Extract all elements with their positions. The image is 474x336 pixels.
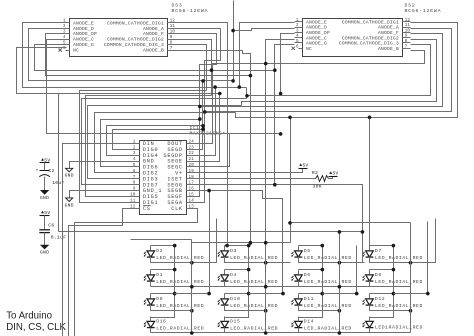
svg-text:ANODE_DP: ANODE_DP — [306, 30, 330, 36]
LED D10 radial red — [218, 296, 279, 309]
wire — [70, 162, 132, 169]
svg-text:D2: D2 — [156, 248, 163, 254]
+5V at IC1 V+ pin — [299, 163, 309, 169]
wire DS3 pin9 cathode DIG2 — [176, 40, 212, 96]
wire anode stub — [224, 246, 226, 251]
svg-text:D5: D5 — [304, 248, 311, 254]
junction — [207, 189, 211, 193]
svg-text:8: 8 — [170, 42, 173, 46]
junction — [190, 261, 194, 265]
svg-text:D7: D7 — [375, 248, 382, 254]
wire DS3 pin1 ANODE_E — [23, 23, 247, 88]
wire V+ to +5V — [195, 169, 303, 173]
junction — [190, 285, 194, 289]
wire cathode stub — [369, 281, 371, 287]
svg-text:ANODE_G: ANODE_G — [306, 41, 327, 47]
capacitor C6 0.1uF — [39, 222, 66, 240]
junction — [264, 285, 268, 289]
junction — [338, 285, 342, 289]
wire cathode jog row3 — [151, 305, 192, 311]
wire DS3 pin5 ANODE_G — [35, 45, 275, 71]
wire DS3 pin7 ANODE_B — [176, 51, 251, 243]
junction — [238, 85, 242, 89]
svg-text:20: 20 — [189, 164, 195, 168]
junction — [201, 124, 205, 128]
svg-text:12: 12 — [405, 19, 411, 23]
wire secondary rail — [209, 191, 211, 294]
wire into IC1 left pin — [113, 130, 203, 150]
junction — [249, 241, 253, 245]
svg-text:C2: C2 — [48, 168, 54, 174]
svg-text:ANODE_A: ANODE_A — [143, 26, 164, 32]
svg-text:LED_RADIAL_RED: LED_RADIAL_RED — [156, 279, 204, 285]
wire LED row2 net — [151, 286, 411, 288]
svg-text:3: 3 — [133, 152, 136, 156]
wire LED row4 net — [151, 332, 411, 334]
wire cathode jog row1 — [299, 257, 365, 263]
junction — [247, 292, 251, 296]
wire DS2 pin12 cathode — [236, 23, 458, 118]
wire SEGG row — [195, 185, 363, 263]
wire CS from Arduino — [69, 209, 132, 336]
junction — [321, 292, 325, 296]
LED D1 radial red — [144, 272, 205, 285]
wire anode stub — [224, 294, 226, 299]
wire into IC1 left pin — [88, 106, 242, 179]
svg-text:17: 17 — [189, 182, 195, 186]
svg-text:LED_RADIAL_RED: LED_RADIAL_RED — [230, 303, 278, 309]
junction — [281, 292, 285, 296]
svg-text:D6: D6 — [304, 272, 311, 278]
junction — [190, 309, 194, 313]
wire DS2 pin5 ANODE_G — [275, 45, 295, 185]
wire into IC1 left pin — [107, 126, 203, 156]
svg-text:19: 19 — [189, 170, 195, 174]
svg-text:11: 11 — [170, 25, 176, 29]
wire col2 bus upper — [265, 64, 267, 243]
svg-text:ANODE_D: ANODE_D — [306, 25, 327, 31]
LED D8 radial red — [362, 272, 423, 285]
svg-text:ANODE_F: ANODE_F — [143, 31, 164, 37]
wire anode chain link — [299, 246, 323, 270]
svg-text:D3: D3 — [230, 248, 237, 254]
svg-text:D8: D8 — [375, 272, 382, 278]
svg-text:COMMON_CATHODE_DIG2: COMMON_CATHODE_DIG2 — [107, 37, 164, 43]
wire col4 anode feed — [291, 222, 411, 224]
junction — [231, 29, 235, 33]
svg-text:ANODE_E: ANODE_E — [73, 20, 94, 26]
svg-text:22: 22 — [189, 152, 195, 156]
svg-text:BC56-12EWA: BC56-12EWA — [405, 8, 442, 14]
svg-text:D16: D16 — [156, 319, 166, 325]
svg-text:1: 1 — [63, 20, 66, 24]
svg-text:9: 9 — [170, 36, 173, 40]
svg-text:16: 16 — [189, 188, 195, 192]
svg-text:13: 13 — [189, 205, 195, 209]
junction — [264, 309, 268, 313]
wire DIN from Arduino — [63, 144, 132, 336]
junction — [338, 261, 342, 265]
junction — [247, 244, 251, 248]
wire cathode bus — [410, 223, 412, 333]
junction — [273, 68, 277, 72]
wire cathode jog row1 — [370, 219, 436, 263]
ground at IC1 pin 9 — [65, 198, 74, 208]
wire anode stub — [369, 317, 371, 322]
svg-text:D15: D15 — [230, 319, 240, 325]
wire — [44, 177, 46, 191]
wire col4 anode drop — [369, 118, 371, 246]
wire cathode stub — [369, 328, 371, 333]
wire SEGDP riser — [195, 88, 216, 156]
svg-text:ANODE_C: ANODE_C — [306, 35, 327, 41]
svg-text:21: 21 — [189, 158, 195, 162]
svg-text:LED_RADIAL_RED: LED_RADIAL_RED — [375, 303, 423, 309]
svg-text:ANODE_DP: ANODE_DP — [73, 31, 97, 37]
LED driver IC1 MAX7221CNG+ — [130, 125, 225, 215]
svg-text:COMMON_CATHODE_DIG1: COMMON_CATHODE_DIG1 — [107, 20, 164, 26]
svg-text:D10: D10 — [230, 296, 240, 302]
wire anode stub — [369, 270, 371, 275]
svg-text:CS: CS — [143, 206, 151, 212]
wire DS3 pin2 ANODE_D — [29, 29, 234, 81]
svg-text:0.1uF: 0.1uF — [51, 235, 67, 241]
wire cathode bus — [265, 243, 267, 333]
svg-text:11: 11 — [405, 24, 411, 28]
wire anode stub — [150, 294, 152, 299]
svg-text:5: 5 — [133, 164, 136, 168]
wire DS2 pin4 ANODE_C — [266, 40, 295, 64]
svg-text:D12: D12 — [375, 296, 385, 302]
svg-text:1: 1 — [133, 140, 136, 144]
wire net B left loop — [17, 48, 220, 94]
LED D3 radial red — [218, 248, 279, 261]
svg-text:ANODE_F: ANODE_F — [378, 30, 399, 36]
wire anode stub — [150, 246, 152, 251]
wire cathode jog row3 — [225, 305, 266, 311]
svg-text:6: 6 — [133, 170, 136, 174]
wire DS2 pin9 cathode — [242, 40, 437, 106]
junction — [264, 241, 268, 245]
svg-text:+: + — [36, 169, 39, 174]
svg-text:COMMON_CATHODE_DIG1: COMMON_CATHODE_DIG1 — [342, 19, 399, 25]
junction — [409, 261, 413, 265]
wire DS2 pin3 ANODE_DP — [281, 34, 295, 94]
svg-text:6: 6 — [296, 45, 299, 49]
svg-text:D1: D1 — [156, 272, 163, 278]
svg-text:ANODE_D: ANODE_D — [73, 26, 94, 32]
wire SEGE riser — [195, 94, 220, 162]
svg-text:D11: D11 — [304, 296, 314, 302]
svg-text:DS2: DS2 — [405, 3, 416, 9]
wire anode stub — [224, 270, 226, 275]
svg-text:10: 10 — [405, 29, 411, 33]
wire cathode jog row1 — [225, 257, 291, 263]
wire col3 anode feed — [59, 231, 363, 233]
wire into IC1 left pin — [95, 113, 236, 173]
junction — [368, 116, 372, 120]
junction — [288, 221, 292, 225]
svg-text:COMMON_CATHODE_DIG_3: COMMON_CATHODE_DIG_3 — [104, 42, 164, 48]
wire col4 anode feed drop — [290, 118, 292, 243]
wire into IC1 left pin — [80, 91, 207, 203]
LED D2 radial red — [144, 248, 205, 261]
wire cathode stub — [150, 328, 152, 333]
wire DS3 pin8 cathode DIG3 — [176, 45, 207, 91]
wire into IC1 left pin — [86, 96, 212, 197]
svg-text:D4: D4 — [230, 272, 237, 278]
svg-text:COMMON_CATHODE_DIG_3: COMMON_CATHODE_DIG_3 — [339, 41, 399, 47]
svg-text:ANODE_B: ANODE_B — [378, 46, 399, 52]
junction — [264, 62, 268, 66]
svg-text:LED_RADIAL_RED: LED_RADIAL_RED — [304, 303, 352, 309]
LED D4 radial red — [218, 272, 279, 285]
wire ISET to R2 — [195, 178, 316, 180]
svg-text:LED_RADIAL_RED: LED_RADIAL_RED — [156, 303, 204, 309]
svg-text:12: 12 — [170, 20, 176, 24]
junction — [338, 331, 342, 335]
svg-text:LED_RADIAL_RED: LED_RADIAL_RED — [230, 326, 278, 332]
junction — [201, 127, 205, 131]
svg-text:18: 18 — [189, 176, 195, 180]
svg-text:14: 14 — [189, 199, 195, 203]
junction — [409, 309, 413, 313]
wire anode stub — [150, 317, 152, 322]
wire anode stub — [298, 294, 300, 299]
junction — [288, 116, 292, 120]
wire CLK from Arduino — [75, 209, 198, 336]
junction — [321, 244, 325, 248]
wire anode stub — [224, 317, 226, 322]
svg-text:2: 2 — [296, 24, 299, 28]
svg-text:8: 8 — [133, 182, 136, 186]
svg-text:D9: D9 — [156, 296, 163, 302]
svg-text:4: 4 — [133, 158, 136, 162]
svg-text:GND: GND — [40, 250, 49, 256]
svg-text:DIN, CS, CLK: DIN, CS, CLK — [6, 322, 66, 333]
svg-text:ANODE_G: ANODE_G — [73, 42, 94, 48]
svg-text:15: 15 — [189, 194, 195, 198]
wire secondary rail — [427, 222, 429, 294]
wire row3 rail ext — [394, 293, 428, 295]
wire anode stub — [298, 246, 300, 251]
junction — [190, 331, 194, 335]
wire DS2 pin11 ANODE_A — [205, 29, 452, 112]
wire — [44, 233, 46, 246]
svg-text:LED1RADIAL_RED: LED1RADIAL_RED — [375, 325, 423, 331]
svg-text:GND: GND — [65, 173, 74, 179]
7-segment display DS3 BC56-12EWA — [59, 3, 209, 57]
wire DS2 pin2 ANODE_D — [234, 29, 295, 31]
svg-text:LED_RADIAL_RED: LED_RADIAL_RED — [230, 279, 278, 285]
LED D9 radial red — [144, 296, 205, 309]
wire cathode stub — [298, 328, 300, 333]
svg-text:8: 8 — [405, 40, 408, 44]
svg-text:CLK: CLK — [171, 206, 183, 212]
svg-text:9: 9 — [405, 35, 408, 39]
junction — [264, 331, 268, 335]
junction — [173, 244, 177, 248]
wire DS2 pin10 ANODE_F — [200, 34, 443, 107]
wire anode chain link — [370, 270, 394, 294]
wire col2 feed drop — [250, 243, 252, 246]
svg-text:LED_RADIAL_RED: LED_RADIAL_RED — [304, 326, 352, 332]
wire cathode stub — [298, 281, 300, 287]
wire into IC1 left pin — [82, 99, 247, 185]
junction — [198, 105, 202, 109]
wire anode stub — [369, 246, 371, 251]
junction — [321, 268, 325, 272]
LED D12 radial red — [362, 296, 423, 309]
junction — [279, 132, 283, 136]
junction — [338, 309, 342, 313]
junction — [203, 110, 207, 114]
svg-text:BC56-12EWA: BC56-12EWA — [172, 8, 209, 14]
junction — [392, 244, 396, 248]
svg-text:7: 7 — [405, 45, 408, 49]
svg-text:GND: GND — [40, 195, 49, 201]
wire SEGB row — [195, 191, 283, 222]
LED D7 radial red — [362, 248, 423, 261]
svg-text:ANODE_C: ANODE_C — [73, 37, 94, 43]
wire anode chain link — [299, 270, 323, 294]
+5V supply above C6 — [40, 210, 51, 216]
ground below C6 — [40, 245, 49, 255]
ground at IC1 pin 4 — [65, 168, 74, 178]
wire anode chain link — [151, 270, 175, 294]
wire anode chain link — [225, 246, 249, 270]
wire cathode jog row3 — [299, 305, 340, 311]
LED D15 radial red — [218, 319, 279, 332]
wire DS3 pin11 ANODE_A — [176, 29, 221, 203]
junction — [173, 268, 177, 272]
svg-text:NC: NC — [306, 46, 312, 52]
svg-text:NC: NC — [73, 48, 79, 54]
junction — [279, 92, 283, 96]
svg-text:23: 23 — [189, 146, 195, 150]
wire anode chain link — [225, 270, 249, 294]
svg-text:24: 24 — [189, 140, 195, 144]
junction — [392, 268, 396, 272]
svg-text:LED_RADIAL_RED: LED_RADIAL_RED — [304, 279, 352, 285]
wire anode chain link — [370, 294, 394, 318]
wire branch down — [58, 94, 60, 232]
7-segment display DS2 BC56-12EWA — [292, 3, 442, 57]
svg-text:GND: GND — [65, 202, 74, 208]
junction — [249, 74, 253, 78]
LED D6 radial red — [291, 272, 352, 285]
junction — [198, 117, 202, 121]
svg-text:ANODE_E: ANODE_E — [306, 19, 327, 25]
junction — [207, 292, 211, 296]
wire anode chain link — [151, 294, 175, 318]
wire DS2 pin8 cathode — [247, 45, 431, 96]
junction — [338, 230, 342, 234]
wire SEGC riser — [195, 134, 230, 167]
wire — [44, 163, 46, 171]
svg-text:LED_RADIAL_RED: LED_RADIAL_RED — [156, 326, 204, 332]
svg-text:5: 5 — [296, 40, 299, 44]
+5V above R2 — [329, 171, 339, 177]
wire row3 rail ext — [249, 293, 283, 295]
capacitor C2 10uF — [36, 168, 65, 186]
svg-text:3: 3 — [296, 29, 299, 33]
junction — [392, 292, 396, 296]
wire anode chain link — [151, 246, 175, 270]
wire anode stub — [298, 317, 300, 322]
wire col1 anode feed — [131, 239, 192, 241]
svg-text:LED_RADIAL_RED: LED_RADIAL_RED — [156, 255, 204, 261]
wire DS3 pin12 cathode DIG1 — [176, 23, 228, 246]
wire anode stub — [150, 270, 152, 275]
svg-text:2: 2 — [133, 146, 136, 150]
svg-text:4: 4 — [296, 35, 299, 39]
wire into IC1 left pin — [101, 120, 200, 167]
svg-text:ANODE_A: ANODE_A — [378, 25, 399, 31]
wire DS2 pin1 ANODE_E — [240, 23, 295, 88]
junction — [264, 261, 268, 265]
wire DS3 pin3 ANODE_DP — [46, 34, 251, 76]
wire row3 rail ext — [175, 293, 210, 295]
junction — [426, 292, 430, 296]
wire anode chain link — [225, 294, 249, 318]
svg-text:DS3: DS3 — [172, 3, 183, 9]
wire vertical off sheet — [233, 1, 235, 81]
junction — [173, 292, 177, 296]
svg-text:7: 7 — [170, 47, 173, 51]
junction — [273, 183, 277, 187]
wire cathode bus — [339, 232, 341, 333]
svg-text:R2: R2 — [312, 170, 318, 176]
svg-text:LED_RADIAL_RED: LED_RADIAL_RED — [375, 255, 423, 261]
wire SEGD riser — [195, 81, 203, 150]
wire E net drop — [246, 88, 248, 99]
wire DS3 pin10 ANODE_F — [176, 34, 217, 197]
resistor R2 30K — [312, 170, 329, 189]
wire cathode jog row3 — [370, 305, 411, 311]
wire DS3 pin4 ANODE_C — [47, 40, 281, 134]
junction — [218, 92, 222, 96]
wire anode chain link — [299, 294, 323, 318]
junction — [231, 79, 235, 83]
wire col2 anode feed — [192, 242, 291, 244]
wire — [44, 216, 46, 230]
junction — [245, 94, 249, 98]
svg-text:7: 7 — [133, 176, 136, 180]
junction — [210, 68, 214, 72]
svg-text:D14: D14 — [304, 319, 314, 325]
LED D5 radial red — [291, 248, 352, 261]
junction — [247, 268, 251, 272]
junction — [361, 230, 365, 234]
wire cathode stub — [150, 281, 152, 287]
svg-text:ANODE_B: ANODE_B — [143, 48, 164, 54]
svg-text:LED_RADIAL_RED: LED_RADIAL_RED — [230, 255, 278, 261]
+5V supply above C2 — [40, 157, 51, 163]
wire anode stub — [298, 270, 300, 275]
svg-text:9: 9 — [133, 188, 136, 192]
LED D16 radial red — [144, 319, 205, 332]
svg-text:C6: C6 — [48, 222, 54, 228]
wire anode stub — [369, 294, 371, 299]
svg-text:To Arduino: To Arduino — [6, 311, 52, 322]
svg-text:10: 10 — [170, 31, 176, 35]
wire cathode stub — [224, 281, 226, 287]
wire cathode bus — [191, 240, 193, 333]
LED D11 radial red — [291, 296, 352, 309]
wire cathode jog row1 — [151, 219, 217, 263]
svg-text:COMMON_CATHODE_DIG2: COMMON_CATHODE_DIG2 — [342, 35, 399, 41]
